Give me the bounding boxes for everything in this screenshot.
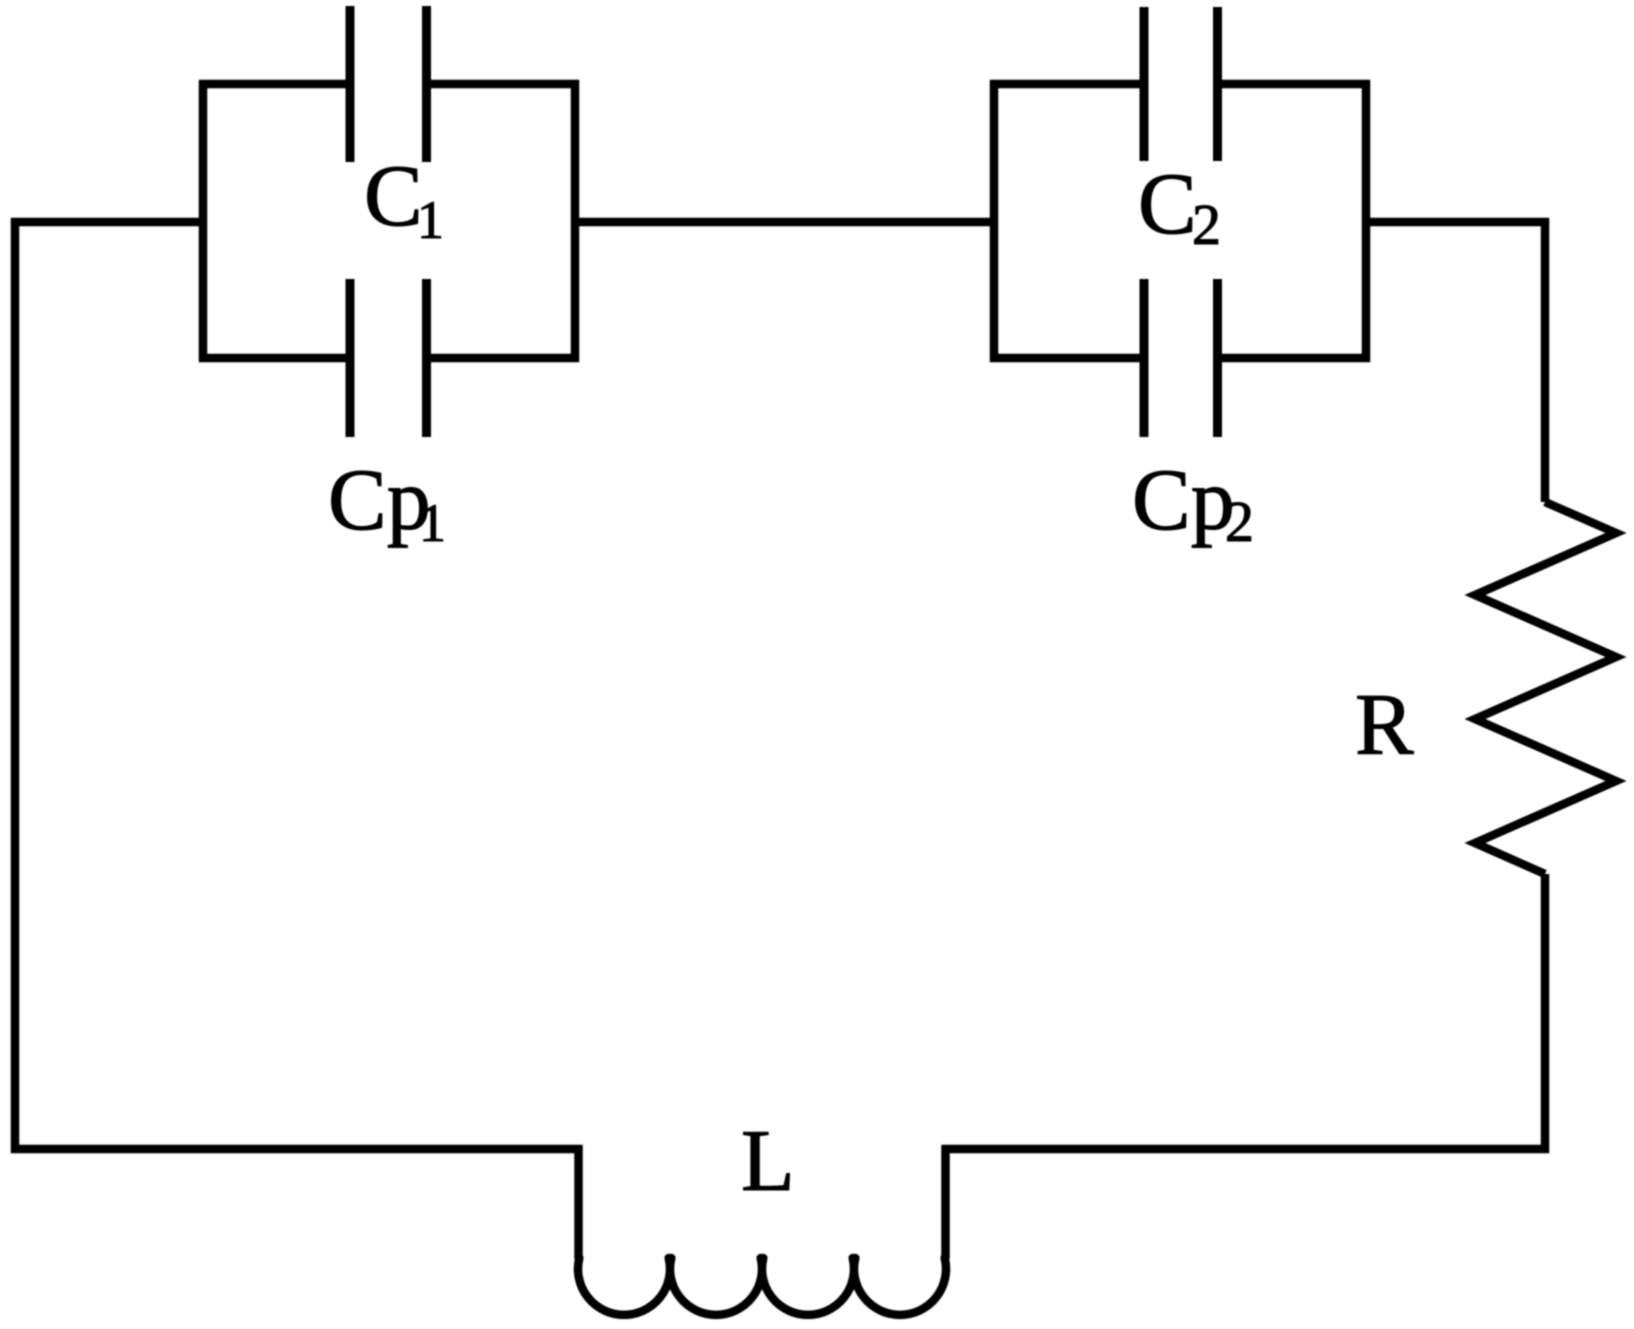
svg-text:1: 1 (417, 190, 444, 250)
svg-text:Cp: Cp (328, 452, 431, 549)
capacitor Cp2 plates (1144, 279, 1218, 437)
wire box2 to right side, down to resistor (1366, 222, 1545, 502)
node box2 left half (parallel branch frame) (994, 84, 1144, 358)
svg-text:2: 2 (1225, 489, 1254, 554)
svg-text:L: L (741, 1113, 795, 1210)
node box1 left half (parallel branch frame) (203, 84, 350, 358)
capacitor C2 plates (1144, 7, 1218, 161)
svg-text:R: R (1355, 677, 1414, 774)
svg-text:C: C (1138, 156, 1197, 253)
resistor R zigzag (1475, 502, 1616, 874)
node box1 right half (parallel branch frame) (426, 84, 575, 358)
inductor L (left lead) (574, 1145, 583, 1259)
inductor L (right lead) (941, 1145, 950, 1259)
inductor L humps (578, 1258, 946, 1315)
svg-text:Cp: Cp (1132, 452, 1235, 549)
wire right side below resistor, bottom-right (942, 874, 1545, 1149)
wire left loop: top-left connector, left side, bottom-left (15, 222, 582, 1149)
node box2 right half (parallel branch frame) (1218, 84, 1366, 358)
svg-text:C: C (364, 148, 423, 245)
capacitor C1 plates (350, 6, 427, 162)
svg-text:1: 1 (419, 493, 446, 553)
wire between box1 and box2 (575, 218, 994, 227)
capacitor Cp1 plates (350, 279, 427, 437)
svg-text:2: 2 (1192, 192, 1221, 257)
